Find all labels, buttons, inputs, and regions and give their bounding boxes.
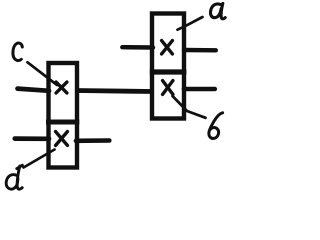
leader line for label b (173, 96, 206, 118)
wire shaft1 middle segment (76, 91, 153, 92)
label a (211, 3, 226, 18)
wire shaft2 right stub (184, 48, 216, 53)
gear block right outline (gear pair a,b) (152, 14, 184, 119)
wire shaft3 right stub (76, 138, 109, 143)
leader line for label d (24, 150, 55, 168)
wire shaft1 right stub (184, 87, 215, 92)
divider of left block (46, 120, 79, 125)
leader line for label a (178, 17, 203, 30)
wire shaft1 left stub (18, 89, 50, 91)
gear X left-top (56, 82, 67, 93)
gear X right-top (162, 41, 173, 54)
gear X left-bottom (56, 132, 68, 146)
divider of right block (150, 69, 187, 74)
leader line for label c (28, 62, 58, 85)
wire shaft2 left stub (122, 45, 153, 50)
label d (6, 165, 22, 189)
wire shaft3 left stub (15, 136, 49, 141)
label b (Cyrillic be) (209, 113, 223, 139)
gear block left outline (gear pair c,d) (49, 63, 78, 168)
label c (13, 43, 22, 61)
gear X right-bottom (163, 81, 173, 95)
